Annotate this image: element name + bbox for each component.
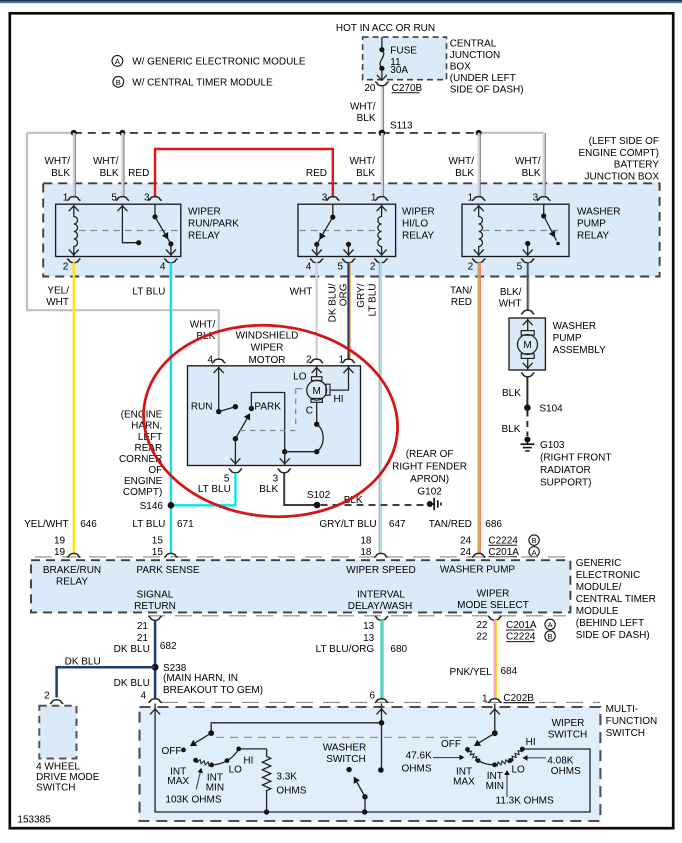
wire WHT/BLK drop to washer relay pin 1 bbox=[478, 133, 480, 198]
left wiper switch pivot wire to pin 6 net bbox=[211, 723, 381, 733]
connector arc motor pin 2 bbox=[310, 359, 323, 363]
left switch INT MIN contact bbox=[209, 763, 214, 768]
label WIPER RUN/PARK RELAY bbox=[188, 206, 239, 241]
junction node 3.3K to rail bbox=[264, 809, 269, 814]
connector arc GEM pin 13 bbox=[375, 616, 388, 620]
wire BLK/WHT washer relay pin5 to pump bbox=[527, 262, 529, 310]
run/park relay pin5 internal wire bbox=[122, 204, 138, 243]
svg-text:PARK SENSE: PARK SENSE bbox=[136, 565, 199, 576]
fuse F11 30A bbox=[377, 37, 387, 80]
label INT MIN (left) bbox=[206, 773, 224, 794]
label CENTRAL JUNCTION BOX (UNDER LEFT SIDE OF DASH) bbox=[450, 38, 524, 95]
svg-text:2: 2 bbox=[63, 262, 69, 273]
svg-text:OHMS: OHMS bbox=[276, 786, 306, 797]
svg-text:47.6K: 47.6K bbox=[406, 751, 432, 762]
svg-text:CENTRAL: CENTRAL bbox=[450, 38, 497, 49]
connector arc washer pin 5 bbox=[521, 259, 534, 263]
svg-text:B: B bbox=[532, 536, 537, 545]
svg-text:(REAR OF: (REAR OF bbox=[406, 449, 454, 460]
svg-text:647: 647 bbox=[389, 519, 406, 530]
connector arc run/park pin 1 bbox=[67, 197, 80, 201]
label WHT/BLK (hi/lo pin1) bbox=[349, 156, 375, 179]
connector arc 4WD pin 2 bbox=[50, 700, 63, 704]
svg-text:4: 4 bbox=[207, 355, 213, 366]
connector C202B line bbox=[161, 701, 600, 703]
svg-text:19: 19 bbox=[54, 535, 66, 546]
svg-text:DK BLU: DK BLU bbox=[114, 678, 150, 689]
wire WHT/BLK left feed (bus corner to wiper motor pin 4) bbox=[27, 133, 219, 360]
pin6 wire inside MFS bbox=[381, 704, 383, 771]
left switch contact arc INT MIN to HI bbox=[212, 749, 239, 765]
svg-text:5: 5 bbox=[517, 262, 523, 273]
label WASHER PUMP RELAY bbox=[577, 206, 621, 241]
svg-text:BLK: BLK bbox=[502, 388, 521, 399]
splice S102 bbox=[314, 502, 321, 509]
washer relay coil bbox=[479, 204, 483, 256]
wire BLK dashed S102 to G102 bbox=[321, 504, 427, 506]
svg-text:4: 4 bbox=[160, 262, 166, 273]
svg-text:BATTERY: BATTERY bbox=[614, 160, 660, 171]
svg-text:WASHER: WASHER bbox=[577, 206, 621, 217]
run/park relay contact node pin5 bbox=[136, 240, 141, 245]
label WIPER HI/LO RELAY bbox=[402, 206, 435, 241]
svg-text:18: 18 bbox=[360, 547, 372, 558]
left switch OFF contact bbox=[181, 748, 186, 753]
motor linkage dashed lines bbox=[240, 389, 302, 431]
browser chrome top strip bbox=[0, 0, 682, 1]
connector C270B bbox=[392, 83, 423, 94]
central junction box (dashed) bbox=[363, 37, 447, 80]
motor pin2 internal wire (LO) bbox=[316, 366, 318, 377]
svg-text:RUN: RUN bbox=[191, 401, 213, 412]
svg-text:MAX: MAX bbox=[453, 776, 475, 787]
svg-text:LT BLU: LT BLU bbox=[132, 287, 165, 298]
left switch LO contact bbox=[225, 758, 230, 763]
washer relay pin5 internal wire bbox=[523, 241, 533, 257]
svg-text:BLK: BLK bbox=[356, 168, 375, 179]
RUN switch arm bbox=[219, 407, 236, 412]
connector arc pump bottom bbox=[521, 373, 534, 377]
svg-text:BLK: BLK bbox=[259, 484, 278, 495]
svg-text:RELAY: RELAY bbox=[577, 231, 609, 242]
wiper motor box bbox=[188, 366, 361, 466]
svg-text:ELECTRONIC: ELECTRONIC bbox=[576, 570, 640, 581]
svg-text:686: 686 bbox=[485, 519, 502, 530]
resistor 47.6K between OFF and INT MAX bbox=[468, 749, 479, 760]
svg-text:(UNDER LEFT: (UNDER LEFT bbox=[450, 73, 516, 84]
svg-text:HI: HI bbox=[526, 737, 536, 748]
svg-text:BREAKOUT TO GEM): BREAKOUT TO GEM) bbox=[163, 685, 263, 696]
label INT MAX (right) bbox=[453, 767, 475, 788]
svg-text:2: 2 bbox=[370, 262, 376, 273]
svg-text:LT BLU: LT BLU bbox=[198, 484, 231, 495]
connector arc motor pin 4 bbox=[212, 359, 225, 363]
splice S104 bbox=[524, 404, 531, 411]
svg-text:S113: S113 bbox=[390, 121, 413, 132]
ground G103 symbol bbox=[521, 437, 535, 451]
svg-text:MODE SELECT: MODE SELECT bbox=[457, 600, 529, 611]
svg-text:24: 24 bbox=[460, 547, 472, 558]
svg-text:DK BLU: DK BLU bbox=[65, 657, 101, 668]
svg-text:3: 3 bbox=[533, 193, 539, 204]
svg-text:BLK: BLK bbox=[501, 424, 520, 435]
washer switch wire to rail bbox=[364, 797, 366, 812]
label INTERVAL DELAY/WASH bbox=[348, 590, 412, 613]
connector arc hi/lo pin 3 bbox=[326, 197, 339, 201]
wire WHT/BLK drop to run/park relay pin 1 bbox=[73, 133, 75, 198]
svg-text:GRY/LT BLU: GRY/LT BLU bbox=[319, 519, 376, 530]
junction node at x=122.4 bbox=[119, 130, 125, 136]
svg-text:ENGINE COMPT): ENGINE COMPT) bbox=[578, 148, 659, 159]
label WIPER MODE SELECT bbox=[457, 588, 529, 611]
washer relay internal divider bbox=[483, 230, 561, 232]
svg-text:4: 4 bbox=[306, 262, 312, 273]
connector arc GEM pin 18 bbox=[374, 553, 387, 557]
svg-text:19: 19 bbox=[54, 547, 66, 558]
svg-text:WHT/: WHT/ bbox=[44, 156, 70, 167]
label GRY/LT BLU (rotated) bbox=[356, 283, 379, 316]
svg-text:S104: S104 bbox=[539, 403, 563, 414]
bus dashed wire S113 run bbox=[74, 132, 479, 134]
battery junction box (dashed) bbox=[43, 183, 659, 276]
svg-text:3.3K: 3.3K bbox=[276, 772, 297, 783]
svg-text:OHMS: OHMS bbox=[402, 764, 432, 775]
label DK BLU/ORG (rotated) bbox=[328, 283, 350, 322]
svg-text:RELAY: RELAY bbox=[56, 577, 88, 588]
wire YEL/WHT 646 run/park pin2 to GEM pin 19 bbox=[73, 262, 75, 554]
svg-text:SWITCH: SWITCH bbox=[606, 728, 645, 739]
right switch HI contact bbox=[520, 747, 525, 752]
svg-text:SWITCH: SWITCH bbox=[548, 730, 587, 741]
svg-text:682: 682 bbox=[160, 641, 177, 652]
wire DK BLU branch S238 to 4WD switch bbox=[57, 667, 156, 697]
wire DK BLU/ORG hi/lo pin5 to motor pin 1 bbox=[347, 262, 349, 359]
svg-text:(ENGINE: (ENGINE bbox=[121, 409, 163, 420]
right wiper switch arm (arrow to OFF) bbox=[478, 733, 495, 744]
label WINDSHIELD WIPER MOTOR bbox=[236, 330, 299, 366]
svg-text:WHT: WHT bbox=[499, 299, 522, 310]
label WHT/BLK (motor pin 4 feed) bbox=[190, 320, 216, 343]
svg-text:BRAKE/RUN: BRAKE/RUN bbox=[43, 565, 101, 576]
label WHT/BLK (pin5 drop) bbox=[93, 156, 119, 179]
svg-text:GENERIC: GENERIC bbox=[576, 558, 622, 569]
left wiper switch pivot bbox=[208, 730, 214, 736]
svg-text:153385: 153385 bbox=[17, 815, 51, 826]
label 4.08K OHMS with pointer bbox=[523, 755, 582, 777]
right wiper switch pivot bbox=[492, 730, 498, 736]
svg-text:OHMS: OHMS bbox=[551, 766, 581, 777]
resistor 11.3K between INT MIN and LO bbox=[495, 760, 511, 766]
junction node pin6/pivot bbox=[379, 720, 385, 726]
connector arc GEM pin 24 bbox=[472, 553, 485, 557]
svg-text:13: 13 bbox=[363, 633, 375, 644]
svg-text:HI/LO: HI/LO bbox=[402, 219, 428, 230]
connector arc GEM pin 21 bbox=[149, 616, 162, 620]
svg-text:WHT/: WHT/ bbox=[515, 156, 541, 167]
svg-text:B: B bbox=[116, 78, 121, 87]
washer switch arm with arrow bbox=[356, 781, 365, 797]
junction node at x=478.7 bbox=[476, 130, 482, 136]
left wiper switch arm (arrow to OFF) bbox=[194, 733, 212, 744]
svg-text:LT BLU/ORG: LT BLU/ORG bbox=[316, 644, 375, 655]
svg-text:BLK: BLK bbox=[522, 168, 541, 179]
wire WHT/BLK drop to run/park relay pin 5 bbox=[121, 133, 123, 198]
PARK contact wire to pin 3 node bbox=[251, 393, 284, 452]
svg-text:RED: RED bbox=[306, 168, 327, 179]
svg-text:BLK: BLK bbox=[455, 168, 474, 179]
label WASHER PUMP ASSEMBLY bbox=[553, 321, 606, 356]
wire BLK motor pin3 to S102 bbox=[284, 473, 317, 505]
wire BLK dashed S104 to G103 bbox=[526, 411, 528, 437]
label MULTI-FUNCTION SWITCH bbox=[606, 704, 658, 739]
connector arc washer pin 3 bbox=[537, 197, 550, 201]
svg-text:BLK: BLK bbox=[51, 168, 70, 179]
label (LEFT SIDE OF ENGINE COMPT) BATTERY JUNCTION BOX bbox=[578, 136, 659, 182]
run/park relay contact from pin 3 bbox=[152, 204, 176, 256]
svg-text:15: 15 bbox=[152, 535, 164, 546]
svg-text:4.08K: 4.08K bbox=[547, 755, 573, 766]
connector arc pump top bbox=[521, 310, 534, 314]
svg-text:WHT/: WHT/ bbox=[448, 156, 474, 167]
svg-text:LO: LO bbox=[229, 764, 243, 775]
svg-text:W/ CENTRAL TIMER MODULE: W/ CENTRAL TIMER MODULE bbox=[132, 77, 273, 88]
svg-text:4 WHEEL: 4 WHEEL bbox=[36, 762, 80, 773]
right switch INT MAX contact bbox=[476, 758, 481, 763]
label 3.3K OHMS bbox=[276, 772, 306, 797]
svg-text:WASHER: WASHER bbox=[323, 742, 367, 753]
hi/lo relay internal divider bbox=[300, 230, 377, 232]
svg-text:RED: RED bbox=[451, 297, 472, 308]
splice S238 bbox=[152, 664, 159, 671]
svg-text:S146: S146 bbox=[140, 501, 164, 512]
svg-text:WIPER SPEED: WIPER SPEED bbox=[346, 565, 415, 576]
right switch LO contact bbox=[508, 758, 513, 763]
hi/lo relay pin5 internal wire bbox=[344, 242, 354, 257]
connector arc MFS pin 1 bbox=[488, 699, 501, 703]
right switch OFF contact bbox=[465, 747, 470, 752]
svg-text:JUNCTION: JUNCTION bbox=[450, 50, 501, 61]
svg-text:1: 1 bbox=[63, 193, 69, 204]
svg-text:FUNCTION: FUNCTION bbox=[606, 716, 658, 727]
svg-text:MODULE: MODULE bbox=[576, 606, 619, 617]
label INT MAX (left) bbox=[167, 767, 189, 788]
svg-text:3: 3 bbox=[144, 193, 150, 204]
svg-text:HARN,: HARN, bbox=[131, 421, 162, 432]
connector arc MFS pin 6 bbox=[375, 699, 388, 703]
svg-text:S102: S102 bbox=[307, 490, 331, 501]
svg-text:BLK: BLK bbox=[357, 113, 376, 124]
svg-text:21: 21 bbox=[137, 633, 149, 644]
svg-text:CENTRAL TIMER: CENTRAL TIMER bbox=[576, 594, 656, 605]
run/park relay internal divider bbox=[79, 230, 179, 232]
svg-text:21: 21 bbox=[137, 621, 149, 632]
label 11.3K OHMS with pointer bbox=[496, 770, 554, 806]
svg-text:HOT IN ACC OR RUN: HOT IN ACC OR RUN bbox=[336, 23, 435, 34]
label WASHER SWITCH bbox=[323, 742, 367, 765]
wire WHT/BLK fuse to S113 bbox=[381, 87, 383, 132]
label BLK/WHT bbox=[499, 287, 522, 310]
red highlight ellipse around wiper motor bbox=[134, 313, 407, 529]
label YEL/WHT bbox=[46, 286, 69, 309]
label WHT/BLK (washer pin3) bbox=[515, 156, 541, 179]
svg-text:WHT/: WHT/ bbox=[350, 102, 376, 113]
svg-text:PARK: PARK bbox=[254, 401, 281, 412]
hi/lo relay contact from pin 3 bbox=[312, 204, 336, 256]
label (ENGINE HARN, LEFT REAR CORNER OF ENGINE COMPT) bbox=[119, 409, 163, 498]
svg-text:MULTI-: MULTI- bbox=[606, 704, 639, 715]
svg-text:RELAY: RELAY bbox=[188, 231, 220, 242]
svg-text:JUNCTION BOX: JUNCTION BOX bbox=[585, 171, 660, 182]
svg-text:WHT/: WHT/ bbox=[93, 156, 119, 167]
svg-text:MIN: MIN bbox=[486, 781, 504, 792]
motor pin3 internal wire bbox=[284, 452, 286, 466]
svg-text:(LEFT SIDE OF: (LEFT SIDE OF bbox=[589, 136, 659, 147]
svg-text:680: 680 bbox=[390, 644, 407, 655]
svg-text:3: 3 bbox=[322, 193, 328, 204]
connector arc run/park pin 5 bbox=[116, 197, 129, 201]
label BRAKE/RUN RELAY bbox=[43, 565, 101, 588]
connector arc GEM pin 15 bbox=[164, 553, 177, 557]
svg-text:2: 2 bbox=[468, 262, 474, 273]
connector arc run/park pin 3 bbox=[148, 197, 161, 201]
svg-text:SWITCH: SWITCH bbox=[36, 783, 75, 794]
svg-text:OFF: OFF bbox=[162, 746, 182, 757]
svg-text:1: 1 bbox=[371, 193, 377, 204]
label WHT/BLK (fuse drop) bbox=[350, 102, 376, 125]
svg-text:RETURN: RETURN bbox=[134, 601, 176, 612]
svg-text:DK BLU: DK BLU bbox=[114, 644, 150, 655]
park switch arm with arrow bbox=[233, 413, 250, 441]
svg-text:OFF: OFF bbox=[441, 739, 461, 750]
connector arc MFS pin 4 bbox=[149, 699, 162, 703]
relay: WIPER HI/LO RELAY box bbox=[298, 204, 396, 256]
multi-function switch box (dashed) bbox=[140, 707, 601, 821]
svg-text:WIPER: WIPER bbox=[402, 206, 435, 217]
fuse label FUSE 11 30A bbox=[390, 46, 417, 77]
svg-text:4: 4 bbox=[140, 691, 146, 702]
svg-text:LT BLU: LT BLU bbox=[132, 519, 165, 530]
svg-text:WIPER: WIPER bbox=[188, 206, 221, 217]
svg-text:A: A bbox=[532, 548, 537, 557]
svg-text:WHT: WHT bbox=[290, 287, 313, 298]
connector arc washer pin 2 bbox=[472, 259, 485, 263]
svg-text:20: 20 bbox=[364, 83, 376, 94]
connector arc hi/lo pin 2 bbox=[374, 259, 387, 263]
washer switch arm pivot node bbox=[362, 794, 367, 799]
GEM/CTM module box (dashed) bbox=[31, 560, 570, 612]
wire WHT/BLK drop to washer relay pin 3 bbox=[543, 133, 545, 198]
svg-text:MOTOR: MOTOR bbox=[248, 355, 285, 366]
svg-text:DK BLU/: DK BLU/ bbox=[328, 283, 339, 322]
svg-text:SIDE OF DASH): SIDE OF DASH) bbox=[450, 85, 524, 96]
svg-text:TAN/RED: TAN/RED bbox=[429, 519, 472, 530]
svg-text:RELAY: RELAY bbox=[402, 231, 434, 242]
svg-text:SWITCH: SWITCH bbox=[326, 754, 365, 765]
motor pin1 internal wire (HI) bbox=[330, 366, 349, 390]
4 wheel drive mode switch box (dashed) bbox=[39, 706, 76, 759]
label 4 WHEEL DRIVE MODE SWITCH bbox=[36, 762, 100, 794]
connector arc GEM pin 22 bbox=[488, 616, 501, 620]
svg-text:FUSE: FUSE bbox=[390, 46, 417, 57]
svg-text:24: 24 bbox=[460, 535, 472, 546]
svg-text:646: 646 bbox=[80, 519, 97, 530]
svg-text:WIPER: WIPER bbox=[552, 718, 585, 729]
svg-text:WHT: WHT bbox=[46, 297, 69, 308]
connector arc run/park pin 4 bbox=[164, 259, 177, 263]
svg-text:G102: G102 bbox=[417, 487, 442, 498]
relay: WASHER PUMP RELAY box bbox=[462, 204, 569, 256]
label G103 (RIGHT FRONT RADIATOR SUPPORT) bbox=[540, 440, 611, 489]
svg-text:W/ GENERIC ELECTRONIC MODULE: W/ GENERIC ELECTRONIC MODULE bbox=[132, 56, 306, 67]
svg-text:M: M bbox=[523, 340, 531, 351]
svg-text:2: 2 bbox=[306, 355, 312, 366]
ground G102 symbol bbox=[427, 498, 441, 510]
svg-text:WASHER: WASHER bbox=[553, 321, 597, 332]
label 47.6K OHMS with pointer bbox=[402, 751, 465, 775]
hi/lo relay coil bbox=[378, 204, 382, 256]
wire GRY/LT BLU 647 hi/lo pin2 to GEM pin 18 bbox=[380, 262, 382, 554]
svg-text:6: 6 bbox=[369, 690, 375, 701]
svg-text:5: 5 bbox=[111, 193, 117, 204]
svg-text:SIDE OF DASH): SIDE OF DASH) bbox=[576, 630, 650, 641]
resistor 4.08K between LO and HI bbox=[510, 749, 522, 760]
wire LT BLU/ORG 680 GEM pin13 to MFS pin 6 bbox=[380, 620, 382, 699]
connector arc hi/lo pin 4 bbox=[310, 259, 323, 263]
svg-text:5: 5 bbox=[337, 262, 343, 273]
svg-text:30A: 30A bbox=[390, 65, 408, 76]
svg-text:1: 1 bbox=[468, 193, 474, 204]
connector arc motor pin 3 bbox=[278, 469, 291, 473]
svg-text:ORG: ORG bbox=[339, 283, 350, 306]
svg-text:C201A: C201A bbox=[506, 620, 537, 631]
svg-text:2: 2 bbox=[44, 690, 50, 701]
washer relay contact from pin 3 bbox=[541, 204, 560, 245]
svg-text:5: 5 bbox=[224, 473, 230, 484]
right switch contact arc INT MAX to INT MIN bbox=[478, 761, 495, 765]
svg-text:1: 1 bbox=[338, 355, 344, 366]
svg-text:(BEHIND LEFT: (BEHIND LEFT bbox=[576, 618, 644, 629]
svg-text:RADIATOR: RADIATOR bbox=[540, 465, 591, 476]
svg-text:LO: LO bbox=[512, 764, 526, 775]
junction node washer switch to rail bbox=[362, 809, 367, 814]
svg-text:DELAY/WASH: DELAY/WASH bbox=[348, 601, 412, 612]
module bottom connector line bbox=[148, 615, 566, 617]
svg-text:PNK/YEL: PNK/YEL bbox=[450, 667, 493, 678]
label WHT/BLK (washer pin1) bbox=[448, 156, 474, 179]
resistor 103K between INT MAX and INT MIN bbox=[196, 760, 212, 766]
label GENERIC ELECTRONIC MODULE/CENTRAL TIMER MODULE (BEHIND LEFT SIDE OF DASH) bbox=[576, 558, 656, 641]
svg-text:MODULE/: MODULE/ bbox=[576, 582, 622, 593]
svg-text:M: M bbox=[313, 386, 321, 397]
motor M1 armature bbox=[307, 377, 330, 403]
svg-text:WIPER: WIPER bbox=[251, 343, 284, 354]
pump motor M2 bbox=[518, 318, 538, 370]
svg-text:BOX: BOX bbox=[450, 62, 471, 73]
connector arc hi/lo pin 5 bbox=[342, 259, 355, 263]
PARK contact node bbox=[249, 406, 254, 411]
svg-text:COMPT): COMPT) bbox=[123, 487, 162, 498]
svg-text:RIGHT FENDER: RIGHT FENDER bbox=[392, 462, 467, 473]
svg-text:BLK: BLK bbox=[100, 168, 119, 179]
wire TAN/RED 686 washer relay pin2 to GEM pin 24 bbox=[478, 262, 480, 554]
svg-text:B: B bbox=[548, 632, 553, 641]
svg-text:PUMP: PUMP bbox=[577, 219, 606, 230]
svg-text:TAN/: TAN/ bbox=[450, 286, 472, 297]
wire WHT hi/lo pin4 to motor pin 2 bbox=[315, 262, 318, 359]
label (MAIN HARN, IN BREAKOUT TO GEM) bbox=[163, 673, 263, 696]
connector arc washer pin 1 bbox=[472, 197, 485, 201]
svg-text:WASHER PUMP: WASHER PUMP bbox=[440, 565, 516, 576]
